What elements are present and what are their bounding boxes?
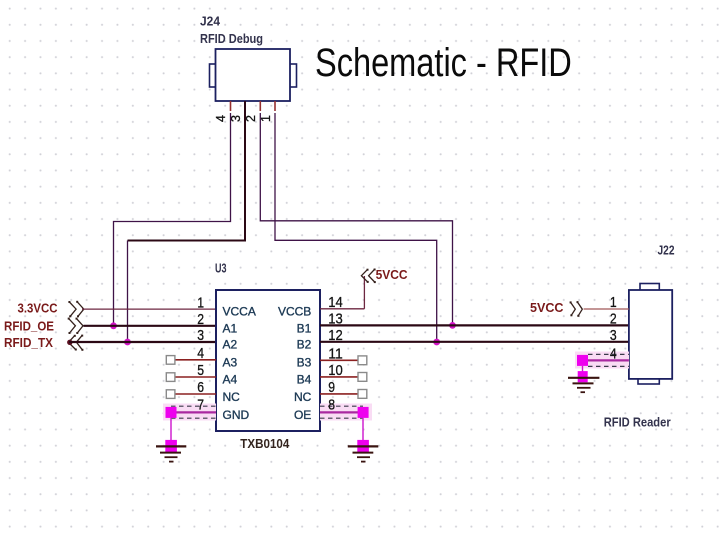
- svg-text:2: 2: [197, 311, 204, 328]
- junction on B1 wire: [449, 322, 456, 329]
- ground symbol at U3 pin 7: [156, 418, 186, 462]
- J22 pin 4 GND dashed selection lines: [588, 354, 629, 366]
- wire 5VCC to J22 pin 1: [584, 308, 629, 310]
- U3 pin 6 no-connect stub: [166, 390, 216, 399]
- U3 pin 4 no-connect stub: [166, 356, 216, 365]
- svg-text:A2: A2: [223, 338, 238, 352]
- connector J24 body: [210, 49, 297, 101]
- ground symbol at J22 pin 4: [568, 366, 599, 392]
- junction on RFID_TX wire: [124, 339, 131, 346]
- wire RFID_TX to U3 pin 3 (thick): [69, 341, 216, 343]
- U3 pin 8 GND wire: [320, 411, 363, 413]
- svg-text:J24: J24: [200, 14, 221, 29]
- J24 pin 1 stub: [274, 101, 276, 111]
- svg-text:NC: NC: [223, 390, 241, 404]
- svg-text:7: 7: [197, 397, 204, 414]
- svg-text:VCCB: VCCB: [278, 305, 311, 319]
- svg-text:4: 4: [610, 346, 617, 363]
- svg-text:4: 4: [214, 115, 228, 122]
- svg-text:OE: OE: [294, 408, 311, 422]
- svg-text:1: 1: [197, 294, 204, 311]
- svg-text:1: 1: [610, 294, 617, 311]
- junction on B2 wire: [433, 339, 440, 346]
- J22 pin 4 GND pad square: [577, 355, 588, 366]
- svg-text:3.3VCC: 3.3VCC: [18, 300, 59, 315]
- title Schematic - RFID: [315, 41, 572, 86]
- wire RFID_OE to U3 pin 2 (thick): [84, 325, 217, 327]
- svg-text:2: 2: [610, 311, 617, 328]
- U3 pin 11 no-connect stub: [320, 356, 367, 365]
- off-page connector arrow for RFID_TX: [67, 335, 83, 351]
- svg-text:B4: B4: [297, 373, 312, 387]
- U3 pin 10 no-connect stub: [320, 373, 367, 382]
- wire 3.3VCC to U3 pin 1: [82, 308, 216, 310]
- U3 pin 7 GND pad square: [166, 407, 177, 418]
- svg-text:RFID_TX: RFID_TX: [4, 335, 53, 350]
- wire J24.1 to B2 net: [275, 113, 437, 342]
- J24 pin 2 stub: [259, 101, 261, 111]
- svg-text:J22: J22: [658, 243, 675, 258]
- U3 body: [216, 290, 320, 431]
- svg-text:RFID Debug: RFID Debug: [200, 31, 263, 46]
- svg-text:B3: B3: [297, 355, 312, 369]
- svg-text:5VCC: 5VCC: [376, 267, 409, 282]
- ground symbol at U3 pin 8: [348, 418, 379, 462]
- svg-text:NC: NC: [294, 390, 312, 404]
- 5VCC label chevrons at U3: [361, 269, 375, 284]
- off-page connector chevrons for 3.3VCC: [68, 301, 83, 318]
- wire U3.12 B2 to J22.3 (thick): [320, 341, 629, 343]
- J22 pin 4 GND net halo: [575, 352, 629, 369]
- U3 pin 9 no-connect stub: [320, 390, 367, 399]
- U3 pin 7 GND dashed selection lines: [171, 406, 216, 418]
- J22 pin 4 GND wire: [583, 359, 629, 361]
- svg-text:8: 8: [328, 397, 335, 414]
- svg-text:2: 2: [244, 115, 258, 122]
- wire segment vertical to RFID_TX junction: [127, 241, 129, 343]
- connector J22 body: [629, 284, 672, 385]
- svg-text:GND: GND: [223, 408, 250, 422]
- U3 pin 7 GND wire: [171, 411, 216, 413]
- svg-text:A4: A4: [223, 373, 238, 387]
- wire U3.13 B1 to J22.2 (thick): [320, 324, 629, 326]
- svg-text:3: 3: [197, 327, 204, 344]
- wire J24.4 to RFID_OE net: [114, 113, 231, 326]
- svg-text:1: 1: [259, 115, 273, 122]
- svg-text:B1: B1: [297, 321, 312, 335]
- svg-text:5VCC: 5VCC: [530, 300, 564, 315]
- svg-text:RFID Reader: RFID Reader: [604, 415, 671, 430]
- U3 pin 8 GND dashed selection lines: [320, 406, 363, 418]
- junction on RFID_OE wire: [110, 322, 117, 329]
- U3 pin 5 no-connect stub: [166, 373, 216, 382]
- svg-text:B2: B2: [297, 338, 312, 352]
- svg-text:A3: A3: [223, 355, 238, 369]
- chevrons for 5VCC at J22: [570, 301, 583, 317]
- svg-text:RFID_OE: RFID_OE: [4, 318, 54, 333]
- wire J24.2 to B1 net: [260, 113, 452, 325]
- svg-text:3: 3: [610, 327, 617, 344]
- svg-text:TXB0104: TXB0104: [240, 436, 290, 451]
- U3 pin 8 OE GND net halo: [320, 404, 372, 421]
- svg-text:VCCA: VCCA: [223, 305, 256, 319]
- off-page connector chevrons for RFID_OE: [68, 318, 83, 334]
- svg-text:U3: U3: [215, 261, 227, 276]
- U3 pin 8 GND pad square: [358, 407, 369, 418]
- U3 pin 7 GND net halo: [163, 404, 216, 421]
- 5VCC power tap at U3 pin 14: [320, 276, 364, 309]
- J24 pin 4 stub: [230, 101, 232, 111]
- wire J24.3 to RFID_TX net (dark): [128, 101, 246, 241]
- svg-text:A1: A1: [223, 321, 238, 335]
